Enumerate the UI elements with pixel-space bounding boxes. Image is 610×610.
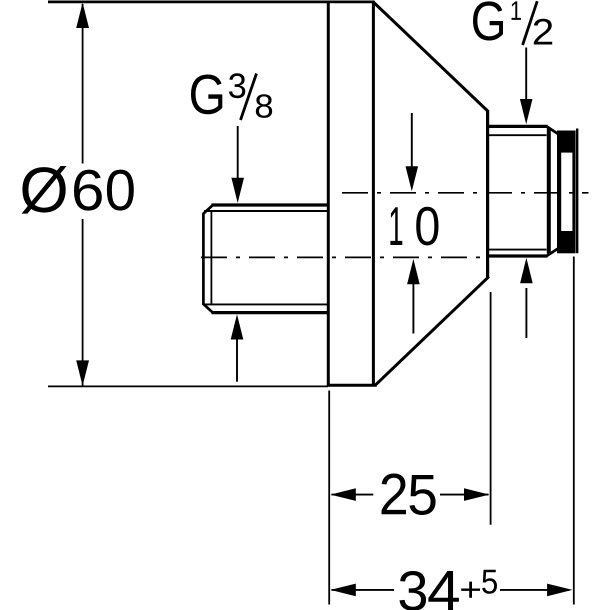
label G1/2 numerator 1 xyxy=(511,1,520,20)
right thread end face xyxy=(547,128,551,254)
cone bottom edge xyxy=(376,277,489,385)
label G3/8 letter G xyxy=(191,75,222,115)
seal collar (section, solid black) xyxy=(557,131,576,254)
wall face bottom extension line xyxy=(48,385,328,387)
right thread G1/2 crest bottom xyxy=(488,254,548,257)
collar end cap line xyxy=(576,129,578,254)
dimension text 10 - 1 xyxy=(390,207,402,245)
wall face top line xyxy=(48,1,375,4)
dimension Ø60 line upper xyxy=(82,4,84,164)
extension line right (thread end) xyxy=(573,257,575,605)
dimension Ø60 arrowhead up xyxy=(76,3,89,28)
dimension 25 arrowhead right xyxy=(464,488,489,501)
label G3/8 numerator 3 xyxy=(229,73,245,98)
flange right edge xyxy=(372,1,375,386)
dimension text Ø60 - 6 xyxy=(74,170,102,211)
dimension text 10 - 0 xyxy=(416,207,438,246)
label G1/2 letter G xyxy=(473,1,503,40)
dimension 34 line right segment xyxy=(500,589,569,591)
label G3/8 denominator 8 xyxy=(256,94,272,118)
dimension 10 arrow line up xyxy=(412,284,414,334)
G1/2 arrow line up xyxy=(525,288,527,338)
G3/8 leader arrow line down xyxy=(237,126,239,179)
dimension 10 arrowhead up xyxy=(407,259,420,284)
dimension text Ø60 - Ø xyxy=(22,166,67,214)
left thread G3/8 root top xyxy=(204,210,330,212)
dimension 10 arrowhead down xyxy=(406,166,419,191)
G1/2 leader arrowhead down xyxy=(520,99,533,124)
left thread G3/8 root bottom xyxy=(204,303,330,305)
right thread G1/2 crest top xyxy=(488,125,548,128)
extension line left (flange face) xyxy=(328,391,330,605)
right thread chamfer top-right xyxy=(547,127,558,134)
dimension text 34 - 3 xyxy=(399,571,426,610)
left thread end face xyxy=(202,213,205,305)
left thread chamfer bottom-left xyxy=(203,304,213,314)
label G3/8 fraction slash xyxy=(241,74,257,121)
dimension text 25 - 5 xyxy=(410,475,436,515)
dimension Ø60 arrowhead down xyxy=(76,360,89,385)
G1/2 leader arrow line down xyxy=(525,48,527,100)
dimension 25 arrowhead left xyxy=(330,488,355,501)
tolerance +5 - 5 xyxy=(482,570,497,594)
dimension 34 arrowhead left xyxy=(330,584,355,597)
axis centerline right (G1/2) xyxy=(342,192,589,194)
dimension 10 arrow line down xyxy=(411,113,413,167)
left thread chamfer top-left xyxy=(203,205,213,214)
tolerance +5 - plus xyxy=(461,582,480,598)
dimension 34 arrowhead right xyxy=(547,584,572,597)
label G1/2 fraction slash xyxy=(523,1,538,45)
label G1/2 denominator 2 xyxy=(534,19,552,45)
extension line middle (thread start) xyxy=(490,292,492,525)
dimension 25 line left segment xyxy=(332,494,374,496)
cone top edge xyxy=(374,3,488,112)
dimension text 34 - 4 xyxy=(428,571,458,610)
G3/8 arrow line up xyxy=(236,339,238,382)
seal collar bore window xyxy=(561,153,572,231)
cone base edge xyxy=(486,110,489,278)
dimension 25 line right segment xyxy=(440,494,489,496)
G3/8 leader arrowhead down xyxy=(231,178,244,203)
flange left edge xyxy=(327,1,330,387)
left thread G3/8 crest bottom xyxy=(212,311,330,314)
axis centerline left (G3/8) xyxy=(201,256,488,258)
dimension 34 line left segment xyxy=(332,589,395,591)
dimension Ø60 line lower xyxy=(82,219,84,386)
dimension text 25 - 2 xyxy=(381,473,405,514)
right thread G1/2 root bottom xyxy=(489,249,547,251)
right thread G1/2 root top xyxy=(489,134,547,136)
left thread root end line xyxy=(210,211,212,304)
flange bottom edge xyxy=(327,384,377,387)
G1/2 arrowhead up xyxy=(520,258,533,283)
right thread chamfer bottom-right xyxy=(547,249,558,256)
left thread G3/8 crest top xyxy=(212,203,330,206)
G3/8 arrowhead up xyxy=(231,314,244,339)
dimension text Ø60 - 0 xyxy=(107,170,134,211)
